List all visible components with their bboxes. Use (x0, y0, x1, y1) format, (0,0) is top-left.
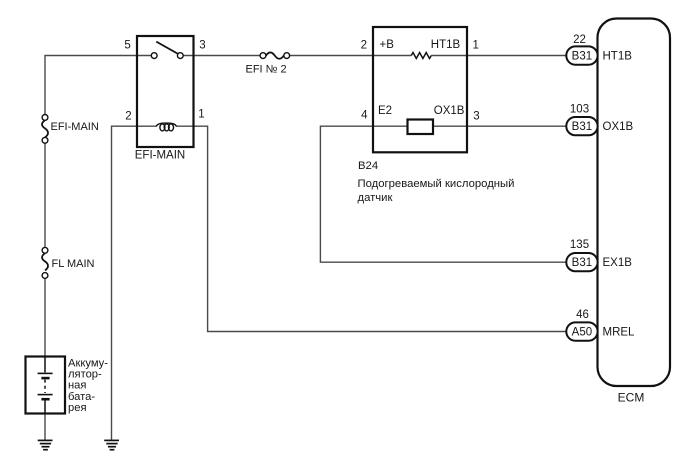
battery internal symbol (38, 357, 53, 414)
svg-text:Подогреваемый кислородный: Подогреваемый кислородный (358, 178, 515, 190)
svg-text:EFI № 2: EFI № 2 (246, 64, 287, 76)
svg-text:бата-: бата- (68, 391, 95, 403)
svg-text:MREL: MREL (603, 327, 636, 339)
resistor HT1B heater (411, 53, 431, 59)
fuse FL MAIN (left vertical) (42, 247, 48, 278)
svg-text:2: 2 (125, 110, 131, 122)
svg-text:5: 5 (124, 40, 130, 52)
wire: relay pin3 to fuse EFI No2 (183, 55, 260, 57)
relay switch contact (151, 42, 183, 59)
svg-text:Аккуму-: Аккуму- (68, 357, 108, 369)
wire: left vertical between fuses (44, 143, 46, 247)
svg-text:22: 22 (573, 34, 586, 46)
wire: battery to ground (44, 414, 46, 441)
svg-text:FL MAIN: FL MAIN (52, 258, 95, 270)
fuse EFI No 2 (horizontal) (260, 52, 290, 58)
svg-text:рея: рея (68, 402, 87, 414)
svg-text:B31: B31 (572, 51, 592, 63)
svg-text:лятор-: лятор- (68, 369, 102, 381)
svg-text:датчик: датчик (358, 192, 393, 204)
svg-text:135: 135 (570, 239, 589, 251)
svg-text:ECM: ECM (618, 391, 645, 405)
svg-text:HT1B: HT1B (431, 39, 461, 51)
svg-text:E2: E2 (378, 105, 392, 117)
svg-text:103: 103 (570, 104, 589, 116)
svg-text:B31: B31 (572, 257, 592, 269)
B24 sensor box (373, 27, 467, 152)
ground 2 (relay coil) (104, 440, 119, 449)
svg-text:4: 4 (361, 109, 368, 121)
svg-text:EX1B: EX1B (603, 257, 633, 269)
svg-text:46: 46 (576, 309, 589, 321)
wire: resistor to HT1B oval (431, 55, 566, 57)
svg-text:HT1B: HT1B (603, 51, 633, 63)
sensor element rectangle OX1B (408, 120, 434, 135)
wire: B24 OX1B to oval (433, 125, 566, 127)
svg-text:1: 1 (473, 40, 479, 52)
svg-text:EFI-MAIN: EFI-MAIN (51, 121, 99, 133)
relay box EFI-MAIN (137, 36, 194, 147)
battery box (26, 357, 66, 414)
battery label (Russian) (68, 357, 108, 414)
relay coil (156, 123, 177, 131)
svg-text:ная: ная (68, 380, 86, 392)
connector oval B31 pin 135 (EX1B) (566, 253, 597, 271)
svg-text:B31: B31 (572, 121, 592, 133)
wire: fuse EFI No2 to B24 +B and resistor (290, 55, 412, 57)
ECM box (598, 19, 671, 387)
svg-text:EFI-MAIN: EFI-MAIN (135, 150, 185, 162)
ground 1 (battery) (38, 440, 53, 449)
connector oval B31 pin 22 (HT1B) (566, 46, 597, 64)
svg-text:OX1B: OX1B (603, 121, 634, 133)
connector oval A50 pin 46 (MREL) (566, 322, 597, 340)
svg-text:OX1B: OX1B (434, 105, 465, 117)
wire: relay pin1 down to MREL oval (177, 126, 567, 331)
svg-text:3: 3 (473, 111, 479, 123)
wire: B24 E2 branch down to EX1B oval (320, 126, 566, 262)
wire: battery branch top (left vertical + top horizontal to relay pin 5) (45, 56, 566, 441)
svg-text:A50: A50 (572, 327, 592, 339)
wire: relay pin2 to ground 2 (112, 126, 157, 440)
wire: left vertical fuse FL MAIN to battery (44, 278, 46, 356)
fuse EFI-MAIN (left vertical) (42, 115, 48, 144)
svg-text:2: 2 (361, 39, 367, 51)
svg-text:3: 3 (199, 40, 205, 52)
svg-text:B24: B24 (358, 160, 378, 172)
svg-text:+B: +B (380, 39, 395, 51)
connector oval B31 pin 103 (OX1B) (566, 117, 597, 135)
svg-text:1: 1 (198, 109, 204, 121)
